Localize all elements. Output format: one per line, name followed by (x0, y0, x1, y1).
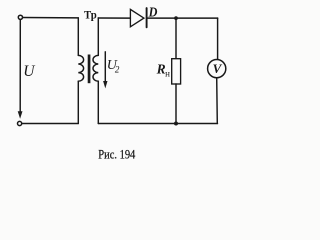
wire left vertical (U arrow shaft) (19, 20, 21, 113)
wire voltmeter bottom down (216, 78, 219, 124)
svg-text:U: U (23, 63, 36, 80)
wire junction down to resistor (175, 18, 177, 59)
arrowhead of U (points down) (18, 111, 23, 119)
junction node top (resistor tap) (174, 16, 178, 20)
terminal top-left input (18, 15, 22, 19)
wire bottom-left horizontal (22, 123, 78, 125)
svg-text:2: 2 (115, 65, 120, 75)
diode D triangle (130, 9, 144, 26)
wire primary bottom vertical (77, 81, 79, 123)
svg-text:н: н (165, 68, 170, 78)
transformer secondary winding (3 arcs bulging left) (93, 55, 98, 81)
wire secondary bottom vertical (97, 81, 99, 123)
transformer T primary winding (3 arcs bulging right) (78, 55, 83, 81)
svg-text:Рис. 194: Рис. 194 (98, 147, 136, 161)
arrow U2 (points down) (104, 52, 106, 82)
wire diode cathode to top-right corner (148, 17, 218, 19)
wire bottom-right rail (98, 123, 217, 125)
diode cathode bar (146, 8, 148, 27)
wire secondary top to diode anode (98, 17, 130, 19)
svg-text:Тр: Тр (84, 7, 97, 21)
junction node bottom (174, 122, 178, 126)
voltmeter V body (208, 60, 226, 78)
wire top-left horizontal (23, 17, 79, 19)
wire secondary top vertical (97, 18, 99, 55)
terminal bottom-left input (18, 121, 22, 125)
svg-text:D: D (148, 5, 158, 20)
svg-text:V: V (213, 61, 223, 76)
resistor Rn body (172, 59, 181, 84)
transformer core (88, 55, 91, 84)
wire primary top vertical (77, 18, 79, 55)
wire resistor bottom to bottom rail (175, 84, 177, 124)
wire top-right corner down to voltmeter (217, 18, 219, 60)
